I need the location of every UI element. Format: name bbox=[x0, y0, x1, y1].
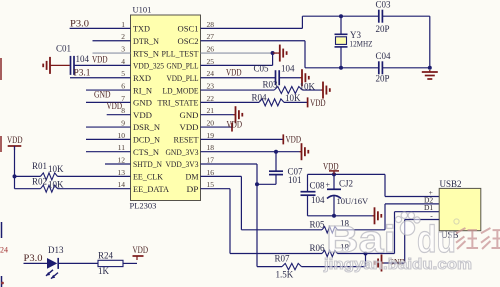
svg-text:104: 104 bbox=[311, 195, 325, 205]
svg-text:CTS_N: CTS_N bbox=[133, 147, 159, 157]
svg-text:26: 26 bbox=[207, 44, 215, 53]
svg-text:U101: U101 bbox=[133, 5, 152, 15]
svg-text:VDD_325: VDD_325 bbox=[133, 61, 164, 71]
svg-text:10U/16V: 10U/16V bbox=[337, 196, 370, 206]
svg-text:R05: R05 bbox=[310, 219, 326, 229]
svg-text:17: 17 bbox=[207, 155, 215, 164]
svg-text:DCD_N: DCD_N bbox=[133, 135, 160, 145]
svg-text:20P: 20P bbox=[376, 74, 390, 84]
svg-text:C05: C05 bbox=[254, 63, 270, 73]
svg-text:jingyan.baidu.com: jingyan.baidu.com bbox=[323, 257, 472, 273]
svg-text:GND_3V3: GND_3V3 bbox=[166, 147, 199, 157]
svg-text:Bai: Bai bbox=[326, 219, 396, 261]
svg-text:VDD: VDD bbox=[180, 122, 199, 132]
svg-text:4: 4 bbox=[121, 57, 125, 66]
svg-text:TRI_STATE: TRI_STATE bbox=[158, 98, 199, 108]
svg-text:VDD: VDD bbox=[310, 98, 326, 108]
svg-text:104: 104 bbox=[76, 54, 90, 64]
svg-text:OSC2: OSC2 bbox=[178, 36, 199, 46]
svg-text:TXD: TXD bbox=[133, 24, 150, 34]
svg-text:OSC1: OSC1 bbox=[178, 24, 199, 34]
svg-text:3: 3 bbox=[121, 44, 125, 53]
svg-text:VDD: VDD bbox=[226, 67, 242, 77]
svg-text:R04: R04 bbox=[252, 93, 268, 103]
svg-text:10K: 10K bbox=[300, 81, 316, 91]
svg-text:15: 15 bbox=[207, 180, 215, 189]
svg-text:DM: DM bbox=[186, 172, 199, 182]
svg-text:24: 24 bbox=[0, 246, 8, 255]
svg-text:EE_DATA: EE_DATA bbox=[133, 184, 170, 194]
svg-text:du: du bbox=[417, 219, 456, 261]
svg-text:C08: C08 bbox=[310, 180, 326, 190]
svg-text:19: 19 bbox=[207, 131, 215, 140]
svg-text:DP: DP bbox=[187, 184, 199, 194]
svg-text:SHTD_N: SHTD_N bbox=[133, 159, 162, 169]
svg-text:R07: R07 bbox=[275, 253, 291, 263]
svg-text:LD_MODE: LD_MODE bbox=[163, 85, 199, 95]
svg-text:RXD: RXD bbox=[133, 73, 151, 83]
svg-text:VDD: VDD bbox=[107, 101, 123, 111]
svg-text:10K: 10K bbox=[285, 93, 301, 103]
svg-text:5: 5 bbox=[121, 69, 125, 78]
svg-text:27: 27 bbox=[207, 32, 215, 41]
svg-text:PLL_TEST: PLL_TEST bbox=[162, 48, 200, 58]
svg-text:10K: 10K bbox=[48, 179, 64, 189]
svg-text:10: 10 bbox=[118, 131, 126, 140]
svg-text:GND_PLL: GND_PLL bbox=[167, 61, 199, 71]
svg-text:P3.1: P3.1 bbox=[74, 67, 91, 77]
svg-text:R02: R02 bbox=[32, 176, 47, 186]
svg-text:6: 6 bbox=[121, 81, 125, 90]
svg-text:VDD: VDD bbox=[227, 120, 243, 130]
svg-text:12MHZ: 12MHZ bbox=[350, 40, 373, 49]
svg-text:RI_N: RI_N bbox=[133, 85, 152, 95]
svg-text:USB2: USB2 bbox=[440, 179, 462, 189]
svg-text:PL2303: PL2303 bbox=[130, 201, 157, 211]
svg-text:20: 20 bbox=[207, 118, 215, 127]
svg-text:GND: GND bbox=[133, 98, 152, 108]
svg-text:RTS_N: RTS_N bbox=[133, 48, 159, 58]
svg-text:18: 18 bbox=[207, 143, 215, 152]
svg-text:10K: 10K bbox=[48, 164, 64, 174]
svg-text:24: 24 bbox=[207, 69, 215, 78]
svg-text:VDD: VDD bbox=[133, 245, 149, 255]
svg-text:1K: 1K bbox=[98, 266, 110, 276]
svg-text:23: 23 bbox=[207, 81, 215, 90]
svg-text:P3.0: P3.0 bbox=[70, 18, 90, 28]
svg-text:21: 21 bbox=[207, 106, 215, 115]
svg-text:20P: 20P bbox=[376, 24, 390, 34]
svg-text:EE_CLK: EE_CLK bbox=[133, 172, 164, 182]
svg-text:GND: GND bbox=[180, 110, 199, 120]
svg-text:12: 12 bbox=[118, 155, 126, 164]
svg-text:VDD: VDD bbox=[92, 54, 108, 64]
svg-text:25: 25 bbox=[207, 57, 215, 66]
svg-text:+: + bbox=[326, 180, 331, 189]
svg-text:22: 22 bbox=[207, 94, 215, 103]
svg-text:VDD: VDD bbox=[7, 135, 23, 145]
svg-text:VDD_3V3: VDD_3V3 bbox=[166, 159, 199, 169]
svg-text:13: 13 bbox=[118, 168, 126, 177]
svg-text:CJ2: CJ2 bbox=[339, 178, 353, 188]
svg-text:VDD: VDD bbox=[286, 134, 302, 144]
svg-text:11: 11 bbox=[118, 143, 125, 152]
svg-text:P3.0: P3.0 bbox=[24, 253, 44, 263]
svg-text:R24: R24 bbox=[98, 250, 114, 260]
svg-text:DTR_N: DTR_N bbox=[133, 36, 159, 46]
svg-text:R06: R06 bbox=[310, 243, 326, 253]
svg-text:101: 101 bbox=[288, 175, 302, 185]
svg-text:D13: D13 bbox=[48, 245, 64, 255]
svg-text:C03: C03 bbox=[376, 0, 392, 9]
svg-text:GND: GND bbox=[94, 89, 111, 99]
svg-text:VDD: VDD bbox=[323, 161, 339, 171]
svg-text:16: 16 bbox=[207, 168, 215, 177]
svg-text:2: 2 bbox=[121, 32, 125, 41]
svg-text:1.5K: 1.5K bbox=[276, 270, 294, 280]
svg-text:VDD_PLL: VDD_PLL bbox=[167, 73, 199, 83]
svg-text:VDD: VDD bbox=[133, 110, 152, 120]
svg-text:14: 14 bbox=[118, 180, 126, 189]
svg-text:1: 1 bbox=[121, 20, 125, 29]
svg-text:DSR_N: DSR_N bbox=[133, 122, 160, 132]
svg-text:104: 104 bbox=[281, 63, 295, 73]
svg-text:C04: C04 bbox=[376, 51, 392, 61]
svg-text:C01: C01 bbox=[56, 44, 71, 54]
svg-text:RESET: RESET bbox=[174, 135, 200, 145]
svg-text:R03: R03 bbox=[263, 80, 279, 90]
svg-text:28: 28 bbox=[207, 20, 215, 29]
svg-text:9: 9 bbox=[121, 118, 125, 127]
svg-text:R01: R01 bbox=[32, 161, 47, 171]
